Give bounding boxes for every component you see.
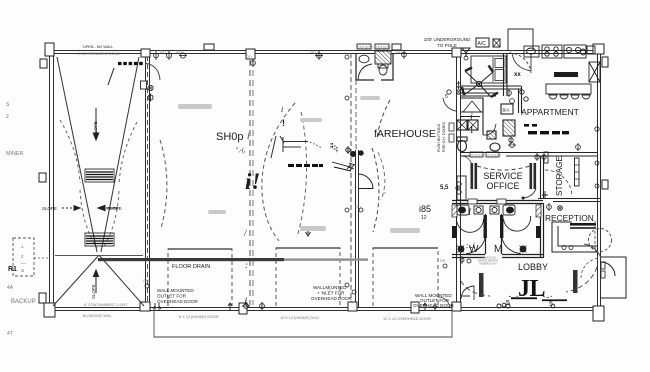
svg-text:5: 5 xyxy=(506,300,510,307)
svg-text:MINER: MINER xyxy=(6,151,23,157)
svg-text:GR: GR xyxy=(440,259,446,263)
svg-text:12 X 12 OVERHEAD DOOR: 12 X 12 OVERHEAD DOOR xyxy=(383,317,431,321)
svg-text:4T: 4T xyxy=(7,331,13,337)
svg-text:OUTLETS: OUTLETS xyxy=(358,46,373,50)
svg-text:SH0p: SH0p xyxy=(216,131,244,143)
svg-text:6' CONTAINMENT L/GHT: 6' CONTAINMENT L/GHT xyxy=(84,303,128,307)
svg-text:16 (INSIDE) WAL: 16 (INSIDE) WAL xyxy=(82,314,112,318)
svg-text:GFI: GFI xyxy=(310,50,316,54)
svg-text:B/A: B/A xyxy=(503,108,510,113)
svg-text:M: M xyxy=(494,244,502,255)
svg-text:5: 5 xyxy=(549,301,553,308)
svg-text:OVERHEAD DOOR: OVERHEAD DOOR xyxy=(157,299,199,304)
svg-text:′′,-(,: ′′,-(, xyxy=(236,148,246,154)
svg-text:i: i xyxy=(470,112,473,123)
svg-text:FLOOR DRAIN: FLOOR DRAIN xyxy=(172,264,210,270)
svg-text:A/C: A/C xyxy=(478,41,487,47)
svg-text:i!: i! xyxy=(245,169,260,194)
svg-text:i: i xyxy=(281,105,283,114)
svg-text:UNDER(S) H/O: UNDER(S) H/O xyxy=(479,262,497,266)
svg-text:100' UNDERGROUND: 100' UNDERGROUND xyxy=(424,37,471,42)
svg-text:a: a xyxy=(21,268,24,274)
svg-text:10 X 12 (INSIDE) DOO: 10 X 12 (INSIDE) DOO xyxy=(280,316,319,320)
svg-text:+ 'NLET FOR: + 'NLET FOR xyxy=(317,291,345,296)
svg-text:i85: i85 xyxy=(419,204,431,214)
svg-text:5,5: 5,5 xyxy=(440,185,449,191)
svg-text:4A: 4A xyxy=(7,285,14,291)
svg-text:4' GOVERNMENT ZONE: 4' GOVERNMENT ZONE xyxy=(77,52,120,56)
svg-text:LOBBY: LOBBY xyxy=(518,262,548,272)
svg-text:WALLM(UNTED: WALLM(UNTED xyxy=(313,285,347,290)
svg-text:STORAGE: STORAGE xyxy=(555,156,564,196)
svg-text:GFI: GFI xyxy=(355,205,361,209)
svg-text:2: 2 xyxy=(6,114,9,120)
svg-text:OUTLETS: OUTLETS xyxy=(487,154,501,158)
svg-text:BACKUP: BACKUP xyxy=(11,299,36,305)
svg-text:”-,: ”-, xyxy=(330,143,338,150)
svg-text:FOR O.H. DOORS: FOR O.H. DOORS xyxy=(442,121,446,152)
svg-text:APPARTMENT: APPARTMENT xyxy=(521,107,580,117)
svg-text:GFI: GFI xyxy=(176,50,182,54)
svg-text:OUTLETS: OUTLETS xyxy=(471,154,485,158)
svg-text:GFI: GFI xyxy=(396,50,402,54)
svg-text:SLOPE: SLOPE xyxy=(91,284,96,299)
svg-text:GFI: GFI xyxy=(143,279,149,283)
svg-text:GFI: GFI xyxy=(160,50,166,54)
svg-text:OUTLET FOR: OUTLET FOR xyxy=(157,294,187,299)
svg-text:5: 5 xyxy=(445,94,448,100)
svg-text:xx: xx xyxy=(514,72,521,78)
svg-text:8 X 12 (INSIDE) DOOR: 8 X 12 (INSIDE) DOOR xyxy=(179,315,219,319)
svg-text:WALL MOUNTED: WALL MOUNTED xyxy=(157,288,194,293)
svg-text:R1: R1 xyxy=(8,266,17,273)
svg-text:—: — xyxy=(21,261,26,267)
svg-text:fAREHOUSE: fAREHOUSE xyxy=(374,128,436,140)
svg-text:SERVICE: SERVICE xyxy=(483,171,522,181)
svg-text:OFFICE: OFFICE xyxy=(487,181,520,191)
svg-text:TO POLE: TO POLE xyxy=(437,43,457,48)
svg-text:SLOPE: SLOPE xyxy=(42,206,57,211)
svg-text:12: 12 xyxy=(421,215,427,221)
svg-text:OUTLETS: OUTLETS xyxy=(376,46,391,50)
svg-text:W: W xyxy=(469,244,479,255)
svg-text::: : xyxy=(245,260,248,270)
svg-text:GFI: GFI xyxy=(246,55,252,59)
svg-text:!: ! xyxy=(282,118,285,128)
svg-text:OVERHEAD DOOR: OVERHEAD DOOR xyxy=(311,296,353,301)
svg-text:PUSH BUTTONS: PUSH BUTTONS xyxy=(437,123,441,152)
svg-text:OPEN - NO WALL: OPEN - NO WALL xyxy=(83,45,113,49)
svg-text:⊥: ⊥ xyxy=(20,244,24,250)
